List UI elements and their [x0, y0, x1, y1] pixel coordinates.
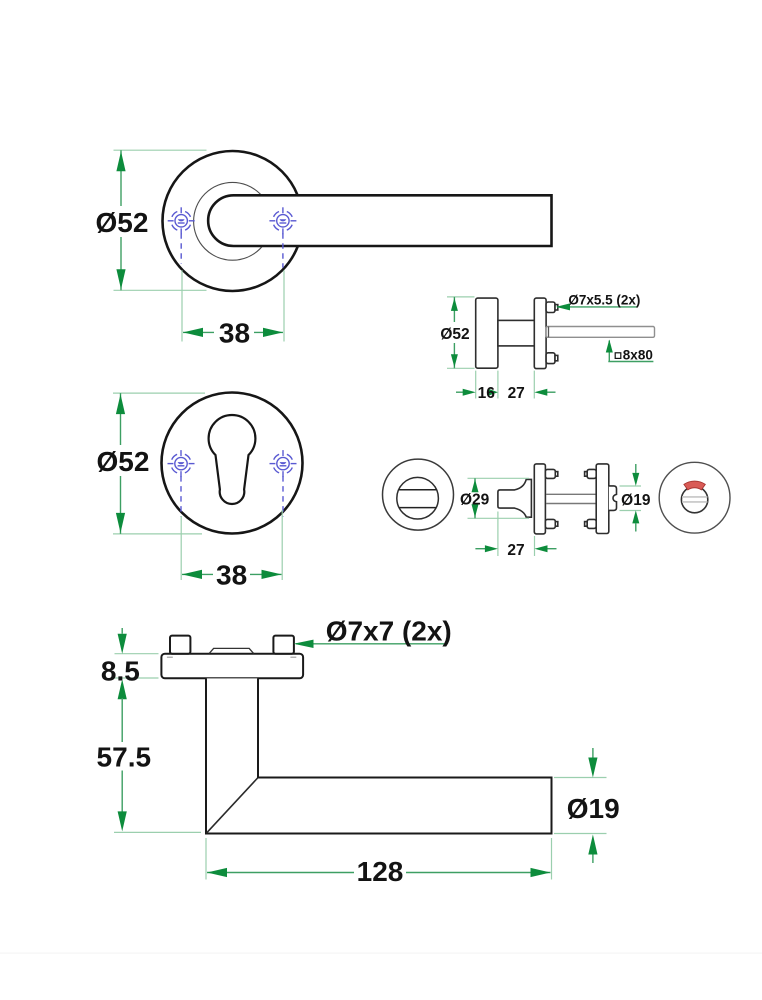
- dimension 38 view1: [182, 270, 284, 348]
- rosette outer circle: [163, 151, 303, 291]
- svg-text:Ø52: Ø52: [440, 326, 469, 343]
- screw position right: [269, 207, 296, 267]
- dimension D52 side: [440, 297, 474, 368]
- svg-text:Ø19: Ø19: [621, 492, 651, 509]
- wc plate left: [534, 464, 545, 534]
- mounting plate: [161, 654, 303, 679]
- lever bar: [208, 195, 551, 246]
- dimension 128: [206, 838, 552, 887]
- emergency release knob: [609, 486, 617, 511]
- rosette disc side: [476, 298, 498, 368]
- euro profile cutout: [209, 415, 256, 504]
- wc plate right: [596, 464, 609, 534]
- svg-text:Ø52: Ø52: [96, 207, 149, 238]
- mounting plate side: [534, 298, 546, 369]
- spindle hub: [209, 648, 253, 653]
- screw position left: [168, 207, 195, 263]
- plate slot mark right: [290, 656, 296, 658]
- svg-text:38: 38: [219, 318, 250, 349]
- svg-text:Ø7x5.5 (2x): Ø7x5.5 (2x): [568, 293, 640, 308]
- fixing screw left: [170, 636, 190, 654]
- coin slot lines: [399, 490, 437, 508]
- handle miter line: [207, 778, 258, 833]
- svg-text:8x80: 8x80: [623, 347, 653, 362]
- fixing screw right: [273, 636, 294, 654]
- wc spindle: [546, 494, 596, 503]
- rosette boss thin circle: [194, 182, 272, 260]
- indicator rosette outer circle: [659, 462, 730, 533]
- screw boss top: [546, 302, 558, 313]
- dimension D52 view2: [97, 393, 205, 534]
- dimension D52 view1: [96, 150, 207, 290]
- svg-text:128: 128: [357, 856, 404, 887]
- svg-text:Ø29: Ø29: [460, 491, 490, 508]
- screw position left escutcheon: [168, 450, 195, 516]
- dimension D29: [460, 478, 529, 518]
- red occupancy indicator: [684, 481, 705, 490]
- dimension 16 / 27: [456, 371, 556, 402]
- thumbturn side view: [498, 479, 532, 517]
- svg-text:Ø19: Ø19: [567, 793, 620, 824]
- svg-text:8.5: 8.5: [101, 655, 140, 686]
- dimension D19 wc: [620, 464, 651, 532]
- label D7x5.5 (2x) with leader: [556, 293, 640, 311]
- coin release knob inner circle: [397, 477, 439, 519]
- indicator slot gray: [682, 497, 707, 502]
- dimension 8.5: [101, 628, 159, 686]
- svg-text:Ø52: Ø52: [97, 446, 150, 477]
- wc plate left boss bottom: [545, 519, 557, 528]
- wc plate left boss top: [545, 469, 557, 478]
- dimension D19 side: [554, 748, 620, 863]
- escutcheon circle: [162, 393, 303, 534]
- coin release knob outer circle: [383, 459, 454, 530]
- svg-text:57.5: 57.5: [97, 742, 152, 773]
- dimension 57.5: [97, 679, 201, 832]
- rosette neck side: [498, 320, 534, 346]
- label D7x7 (2x) with leader: [294, 616, 452, 649]
- faint page rule: [0, 953, 762, 954]
- label square 8x80 with leader: [606, 340, 654, 363]
- dimension 38 view2: [181, 510, 282, 591]
- wc plate right boss bottom: [585, 519, 597, 528]
- screw position right escutcheon: [270, 450, 297, 516]
- svg-text:38: 38: [216, 560, 247, 591]
- svg-text:27: 27: [508, 385, 525, 402]
- screw boss bottom: [546, 353, 558, 364]
- svg-text:Ø7x7 (2x): Ø7x7 (2x): [326, 616, 452, 647]
- svg-text:16: 16: [478, 385, 496, 402]
- svg-text:27: 27: [507, 542, 524, 559]
- plate slot mark left: [167, 656, 173, 658]
- dimension 27 wc: [475, 512, 556, 559]
- handle profile: [206, 678, 552, 833]
- indicator inner circle: [681, 486, 707, 512]
- wc plate right boss top: [585, 469, 597, 478]
- spindle 8x80: [546, 327, 654, 338]
